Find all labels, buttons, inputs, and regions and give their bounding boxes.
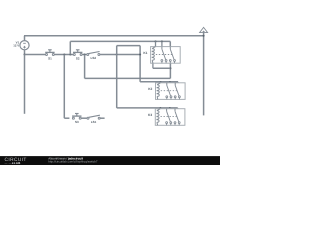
wire main bus S1 to S2 xyxy=(54,54,73,56)
switch LS2 xyxy=(87,54,89,56)
svg-text:12 V: 12 V xyxy=(13,43,19,47)
relay K3 contact 1 xyxy=(166,109,168,112)
wire V1 top stub xyxy=(24,36,26,41)
wire K2 feed run xyxy=(140,81,178,83)
wire V1 bottom stub xyxy=(24,50,26,55)
junction K3 contact1 node xyxy=(169,107,171,109)
wire branch A to S3 xyxy=(64,117,69,119)
relay K1 box xyxy=(151,47,181,64)
relay K2 contact 1 xyxy=(166,83,168,86)
wire main bus LS2 to K-feeds xyxy=(100,54,140,56)
junction V1 bottom node xyxy=(23,53,25,55)
wire S3 to LS1 xyxy=(81,117,87,119)
wire right dangling drop xyxy=(203,32,205,115)
wire main bus S2 to LS2 xyxy=(82,54,87,56)
push button S1 xyxy=(46,54,48,56)
junction node B xyxy=(69,53,71,55)
wire K1 feed wire W1 xyxy=(70,40,170,42)
svg-text:K1: K1 xyxy=(143,51,147,55)
wire W1 tick K1 contact1 pin xyxy=(161,41,163,46)
wire W1 tick K1 coil pin xyxy=(155,41,157,46)
relay K3 dashed link xyxy=(161,116,177,118)
wire branch C run xyxy=(85,77,171,79)
voltage source V1 xyxy=(20,41,29,50)
junction K2 coil node xyxy=(160,81,162,83)
svg-text:LS2: LS2 xyxy=(91,56,97,60)
wire K3 contact2 pin tick xyxy=(177,107,179,110)
wire K3 contact1 pin tick xyxy=(169,107,171,110)
junction rail to arrow node xyxy=(203,35,205,37)
wire K2 feed drop xyxy=(139,46,141,82)
wire branch C riser to K1 bottom xyxy=(169,63,171,78)
wire K3 feed drop xyxy=(116,46,118,108)
relay K3 coil xyxy=(157,111,159,123)
svg-text:S2: S2 xyxy=(76,57,80,61)
junction W1-K1 contact1 node xyxy=(161,40,163,42)
svg-text:K3: K3 xyxy=(148,113,152,117)
switch LS1 xyxy=(87,117,89,119)
relay K1 coil xyxy=(152,49,154,61)
watermark bar xyxy=(0,156,220,165)
push button S3 xyxy=(72,117,74,119)
junction K1 coil bottom node xyxy=(169,67,171,69)
wire branch A drop xyxy=(63,55,65,119)
wire main bus V1 to S1 xyxy=(25,54,46,56)
wire left dangling drop xyxy=(24,55,26,114)
relay K1 contact 2 xyxy=(169,47,171,50)
wire K1 coil bottom link xyxy=(153,67,171,69)
junction W1-K1 coil node xyxy=(154,40,156,42)
relay K2 box xyxy=(156,83,186,100)
push button S2 xyxy=(73,54,75,56)
wire top rail xyxy=(24,35,204,37)
wire W1 drop to K1 contact2 xyxy=(169,41,171,46)
svg-text:http://circuitlab.com/c/6vphhz: http://circuitlab.com/c/6vphhzq/switch7 xyxy=(48,160,98,164)
junction K3 coil node xyxy=(160,107,162,109)
relay K2 coil xyxy=(157,85,159,97)
relay K2 dashed link xyxy=(161,90,177,92)
svg-text:K2: K2 xyxy=(148,87,152,91)
relay K1 contact 1 xyxy=(161,47,163,50)
wire K1 coil bottom stub xyxy=(152,63,154,68)
junction cross node C2 xyxy=(139,78,141,80)
svg-text:S1: S1 xyxy=(48,57,52,61)
relay K1 dashed link xyxy=(156,54,172,56)
svg-text:—·—■LAB: —·—■LAB xyxy=(5,161,21,165)
wire branch C drop xyxy=(84,55,86,79)
relay K3 contact 2 xyxy=(174,109,176,112)
junction node C xyxy=(84,53,86,55)
wire K3 coil pin tick xyxy=(159,107,161,110)
junction node E xyxy=(139,53,141,55)
svg-text:LS1: LS1 xyxy=(91,120,97,124)
junction node A xyxy=(63,53,65,55)
wire K2 contact1 pin tick xyxy=(169,82,171,83)
wire K2 coil pin tick xyxy=(160,82,162,83)
wire LS1 dangling stub xyxy=(100,117,104,119)
relay K3 box xyxy=(155,109,185,126)
power arrow flag xyxy=(200,27,208,32)
wire K2 contact2 pin tick xyxy=(177,82,179,83)
junction K2 contact1 node xyxy=(169,81,171,83)
junction node D xyxy=(116,53,118,55)
svg-text:S3: S3 xyxy=(75,120,79,124)
wire K3 feed run xyxy=(117,107,178,109)
relay K2 contact 2 xyxy=(174,83,176,86)
wire branch B riser xyxy=(69,41,71,54)
wire K-feed top connector xyxy=(117,45,140,47)
junction cross node C1 xyxy=(116,78,118,80)
